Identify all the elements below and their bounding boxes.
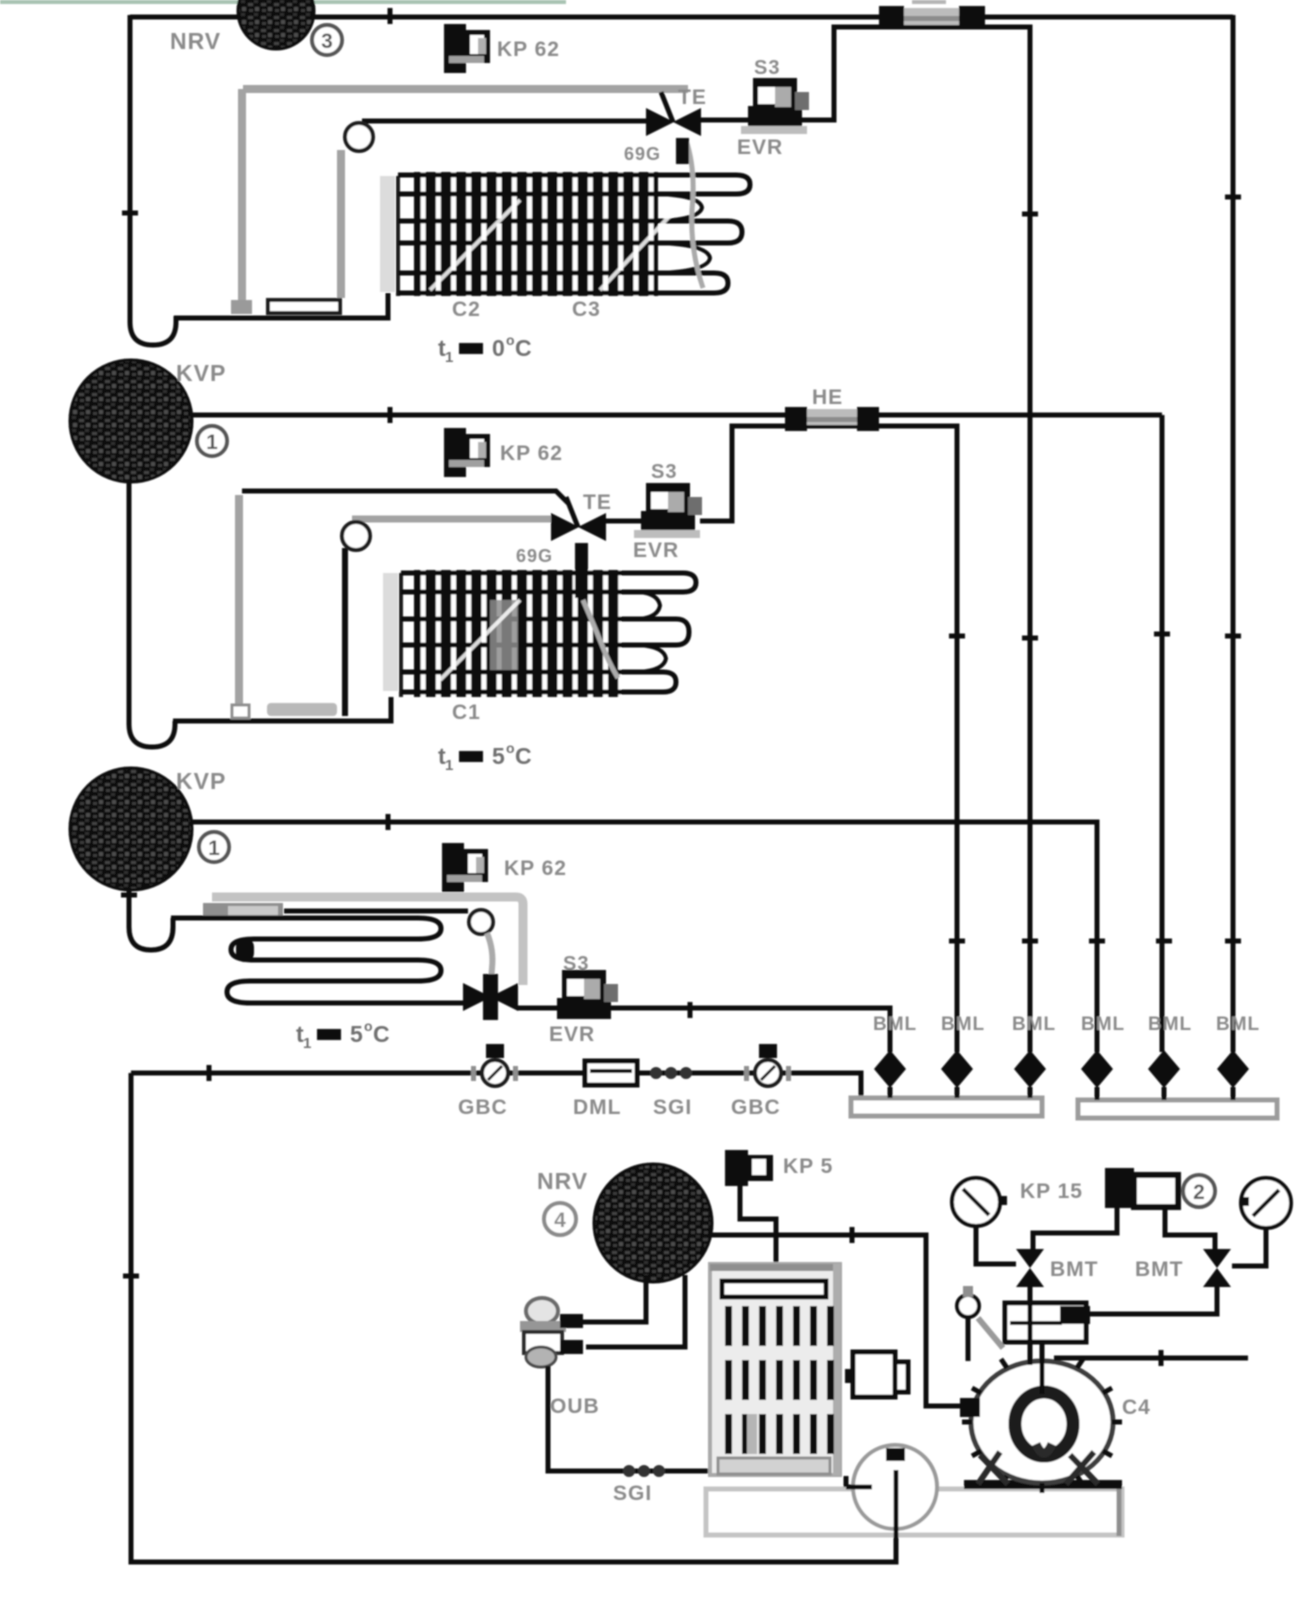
svg-text:BML: BML [1012, 1014, 1056, 1035]
svg-text:OUB: OUB [550, 1395, 600, 1418]
wire left riser C1 with U-trap [130, 15, 176, 345]
gray down pipe C2 left [235, 495, 243, 706]
svg-text:KP 62: KP 62 [500, 442, 563, 465]
ticks at y~636 [949, 634, 1241, 638]
valve BML 2 [941, 1050, 973, 1098]
wire BMT1 drop through head [1028, 1286, 1033, 1365]
svg-text:KP 62: KP 62 [504, 857, 567, 880]
note marker 1b [199, 832, 229, 862]
evaporator C2 return bends [640, 573, 696, 692]
pressure switch KP62 #1 [444, 24, 490, 73]
svg-text:4: 4 [554, 1209, 566, 1232]
wire suction rail C3 [190, 822, 1097, 1052]
svg-text:C: C [515, 743, 532, 769]
expansion valve TE1 [646, 92, 701, 164]
wire right gauge to BMT2 [1232, 1228, 1266, 1266]
wire discharge line to BMT2 [1080, 1287, 1217, 1314]
evaporator C2 fin block [414, 570, 621, 697]
compressor legs [978, 1452, 1098, 1484]
receiver gray lower bars [747, 1414, 757, 1454]
svg-text:69G: 69G [516, 546, 553, 566]
svg-text:S3: S3 [754, 57, 780, 79]
wire KP15 right lead to BMT2 [1165, 1208, 1215, 1249]
wire main liquid line [131, 1073, 861, 1098]
receiver top header [722, 1281, 826, 1297]
svg-text:KP 15: KP 15 [1020, 1180, 1083, 1203]
label t1 = 0 C [438, 332, 532, 366]
tick on C1 rail [388, 8, 393, 24]
label t1 = 5 C (circuit 3) [296, 1018, 390, 1052]
svg-text:NRV: NRV [537, 1168, 588, 1194]
ticks at y~941 [949, 939, 1241, 944]
evaporator C1 return bends [660, 175, 750, 293]
evaporator C1 fin block [414, 172, 658, 296]
svg-text:C3: C3 [572, 298, 601, 321]
tick on liquid main [207, 1065, 212, 1081]
TE2 capillary (gray) [583, 600, 618, 678]
regulator KVP1 (textured ball) [70, 360, 192, 482]
svg-text:o: o [506, 332, 515, 348]
white scan streaks over fins [430, 200, 680, 290]
gray smudge on fins C2 [490, 600, 518, 670]
svg-text:1: 1 [208, 837, 220, 860]
compressor suction port [960, 1398, 980, 1417]
compressor head [1005, 1303, 1090, 1342]
valve BML 5 [1148, 1050, 1180, 1100]
gray header line C2 [352, 516, 556, 523]
wire KVP1 stem with U-trap [129, 480, 175, 747]
tick on C2 rail [388, 407, 393, 423]
note marker 4 [544, 1203, 576, 1235]
sight glass SGI (oil line) [623, 1465, 665, 1477]
labels BML x6 [873, 1014, 1260, 1035]
solenoid valve EVR1 with coil S3 [741, 78, 809, 134]
svg-text:EVR: EVR [549, 1023, 595, 1046]
svg-text:S3: S3 [651, 461, 677, 483]
wire TE1-EVR1 [701, 118, 748, 123]
machine base slab [706, 1489, 1122, 1536]
pressure switch KP5 [725, 1150, 773, 1186]
svg-text:BML: BML [1216, 1014, 1260, 1035]
wire inner drop C2 [342, 548, 348, 716]
compressor base bar [964, 1480, 1122, 1489]
wire liquid line C1: EVR1 to riser through HE1 to BML3 [800, 27, 1030, 1052]
wire evaporator outlet line C1 (bottom) [174, 293, 388, 318]
remnant of cropped HE label [912, 0, 946, 4]
wire suction rail C1 (top) [130, 15, 1233, 20]
wire KVP2 stem with U-trap [129, 888, 173, 950]
pipe end cap C2 [232, 705, 249, 718]
tick on KVP2 stem [121, 893, 137, 898]
compressor C4 body [962, 1342, 1122, 1493]
svg-text:C2: C2 [452, 298, 481, 321]
motor box on receiver [845, 1352, 908, 1397]
gray distributor pipe C1 (top) [243, 85, 688, 93]
svg-text:TE: TE [583, 491, 612, 514]
capillary gray C3 [487, 933, 492, 982]
svg-text:3: 3 [321, 30, 333, 53]
serpentine top run to sensor [284, 909, 468, 914]
wire KP5 lead to receiver [740, 1186, 776, 1283]
svg-text:0: 0 [492, 335, 505, 361]
valve BML 4 [1081, 1050, 1113, 1100]
wire evaporator outlet line C2 [173, 697, 391, 721]
svg-text:1: 1 [445, 349, 454, 366]
svg-text:SGI: SGI [653, 1096, 692, 1119]
solenoid valve EVR3 with coil S3 [557, 970, 618, 1019]
suction manifold right [1078, 1100, 1277, 1118]
svg-text:BMT: BMT [1135, 1258, 1184, 1281]
gauge left [952, 1178, 1007, 1226]
compressor safety valve [957, 1286, 1003, 1361]
shut-off valve GBC #2 [744, 1044, 791, 1086]
wire suction drop to BML6 [1231, 15, 1236, 1052]
solenoid valve EVR2 with coil S3 [634, 483, 702, 538]
label t1 = 5 C (circuit 2) [438, 740, 532, 774]
evaporator C2 tubes [401, 573, 640, 692]
heat exchanger HE1 (top, cropped label) [879, 6, 985, 29]
regulator KVP2 (textured ball) [70, 768, 192, 890]
valve BML 1 [874, 1050, 906, 1098]
wire top feed line C2 [242, 491, 568, 503]
tick on NRV4 line [850, 1227, 855, 1243]
pressure switch KP62 #2 [444, 428, 490, 477]
liquid manifold left [851, 1098, 1042, 1116]
evaporator C2 end plate [383, 573, 398, 691]
drain pan C1 [268, 300, 340, 313]
condenser-receiver shell [710, 1264, 840, 1475]
plate evaporator header slab [203, 903, 283, 918]
valve BML 6 [1217, 1050, 1249, 1100]
tick on C3 rail [386, 814, 391, 830]
wire liquid line C2: EVR2 riser through HE2 to BML2 [700, 426, 957, 1052]
svg-text:1: 1 [303, 1035, 312, 1052]
check valve NRV4 (textured ball) [594, 1164, 712, 1282]
svg-text:BML: BML [941, 1014, 985, 1035]
receiver tube bars [725, 1306, 834, 1454]
note marker 2 [1183, 1175, 1215, 1207]
valve BML 3 [1014, 1050, 1046, 1098]
svg-text:2: 2 [1193, 1181, 1205, 1204]
svg-text:DML: DML [573, 1096, 622, 1119]
filled left bend blob [236, 938, 254, 962]
svg-text:o: o [364, 1018, 373, 1034]
shut-off valve GBC #1 [471, 1044, 518, 1086]
wire TE3-EVR3 line [518, 1008, 890, 1052]
tick on left drop [123, 1274, 139, 1279]
svg-text:BMT: BMT [1050, 1258, 1099, 1281]
svg-text:5: 5 [350, 1021, 363, 1047]
note marker 1a [197, 426, 227, 456]
sensor circle C1 [345, 123, 373, 151]
drain pan C2 [267, 703, 337, 716]
svg-text:KP 62: KP 62 [497, 38, 560, 61]
pressure switch KP15 [1105, 1168, 1178, 1208]
valve BMT1 [1016, 1249, 1044, 1287]
svg-text:1: 1 [445, 757, 454, 774]
evaporator C1 end plate [380, 176, 395, 292]
wire left gauge to BMT1 [976, 1226, 1016, 1264]
wire header line C1 (sensor to TE1) [362, 119, 648, 124]
serpentine coil C3 [171, 918, 472, 1003]
tick on compressor suction [1159, 1350, 1164, 1366]
wire left drop to bottom [131, 1073, 896, 1562]
svg-text:BML: BML [873, 1014, 917, 1035]
svg-text:C: C [515, 335, 532, 361]
svg-text:EVR: EVR [737, 136, 783, 159]
svg-text:TE: TE [678, 86, 707, 109]
svg-text:BML: BML [1081, 1014, 1125, 1035]
valve BMT2 [1203, 1249, 1231, 1287]
wire NRV4 to suction drop [710, 1235, 971, 1406]
svg-text:GBC: GBC [458, 1096, 508, 1119]
tick on C1 left riser [122, 211, 138, 216]
tick on suction riser x1233 [1225, 195, 1241, 200]
tick on EVR3 line [688, 1002, 693, 1018]
filter drier DML [585, 1061, 637, 1085]
svg-text:C1: C1 [452, 701, 481, 724]
gauge right [1240, 1178, 1291, 1228]
wire KP15 left lead to BMT1 [1033, 1208, 1117, 1249]
sensor circle C3 [469, 910, 493, 934]
pressure switch KP62 #3 [442, 843, 488, 892]
note marker 3 [312, 25, 342, 55]
svg-text:KP 5: KP 5 [783, 1155, 833, 1178]
svg-text:o: o [506, 740, 515, 756]
check valve NRV3 (textured ball, cropped at top) [238, 0, 314, 49]
wire suction rail C2 [190, 415, 1162, 1052]
TE1 capillary (gray) [686, 140, 703, 288]
svg-text:BML: BML [1148, 1014, 1192, 1035]
sensor circle C2 [342, 522, 370, 550]
svg-text:1: 1 [206, 431, 218, 454]
pump circle [846, 1445, 937, 1562]
white scan streak over fins C2 [440, 600, 520, 680]
svg-text:KVP: KVP [176, 768, 226, 794]
plate evaporator gray frame [212, 897, 523, 985]
expansion valve TE3 [463, 974, 518, 1020]
svg-text:KVP: KVP [176, 360, 226, 386]
expansion valve TE2 [551, 497, 606, 598]
svg-text:NRV: NRV [170, 28, 221, 54]
svg-text:EVR: EVR [633, 539, 679, 562]
top page-crop green rule [0, 0, 566, 4]
svg-text:C4: C4 [1122, 1396, 1151, 1419]
gray down pipe C1 left [238, 89, 246, 301]
svg-text:5: 5 [492, 743, 505, 769]
wire compressor suction from manifold side [1054, 1356, 1248, 1361]
svg-text:S3: S3 [563, 953, 589, 975]
svg-text:SGI: SGI [613, 1482, 652, 1505]
svg-text:C: C [373, 1021, 390, 1047]
wire TE2-EVR2 [606, 519, 646, 524]
gray down pipe C1 inner [328, 150, 341, 304]
evaporator C1 tubes [398, 175, 660, 293]
oil valve OUB [520, 1298, 583, 1367]
gray pipe end cap C1 [231, 300, 252, 314]
heat exchanger HE2 [785, 407, 879, 431]
wire OUB drop and oil return [548, 1366, 722, 1471]
svg-text:69G: 69G [624, 144, 661, 164]
svg-text:GBC: GBC [731, 1096, 781, 1119]
sight glass SGI (liquid line) [650, 1067, 692, 1079]
wire NRV4 lower stems to OUB [583, 1275, 685, 1347]
tick on liquid riser x1030 [1022, 212, 1038, 217]
svg-text:HE: HE [812, 386, 843, 409]
